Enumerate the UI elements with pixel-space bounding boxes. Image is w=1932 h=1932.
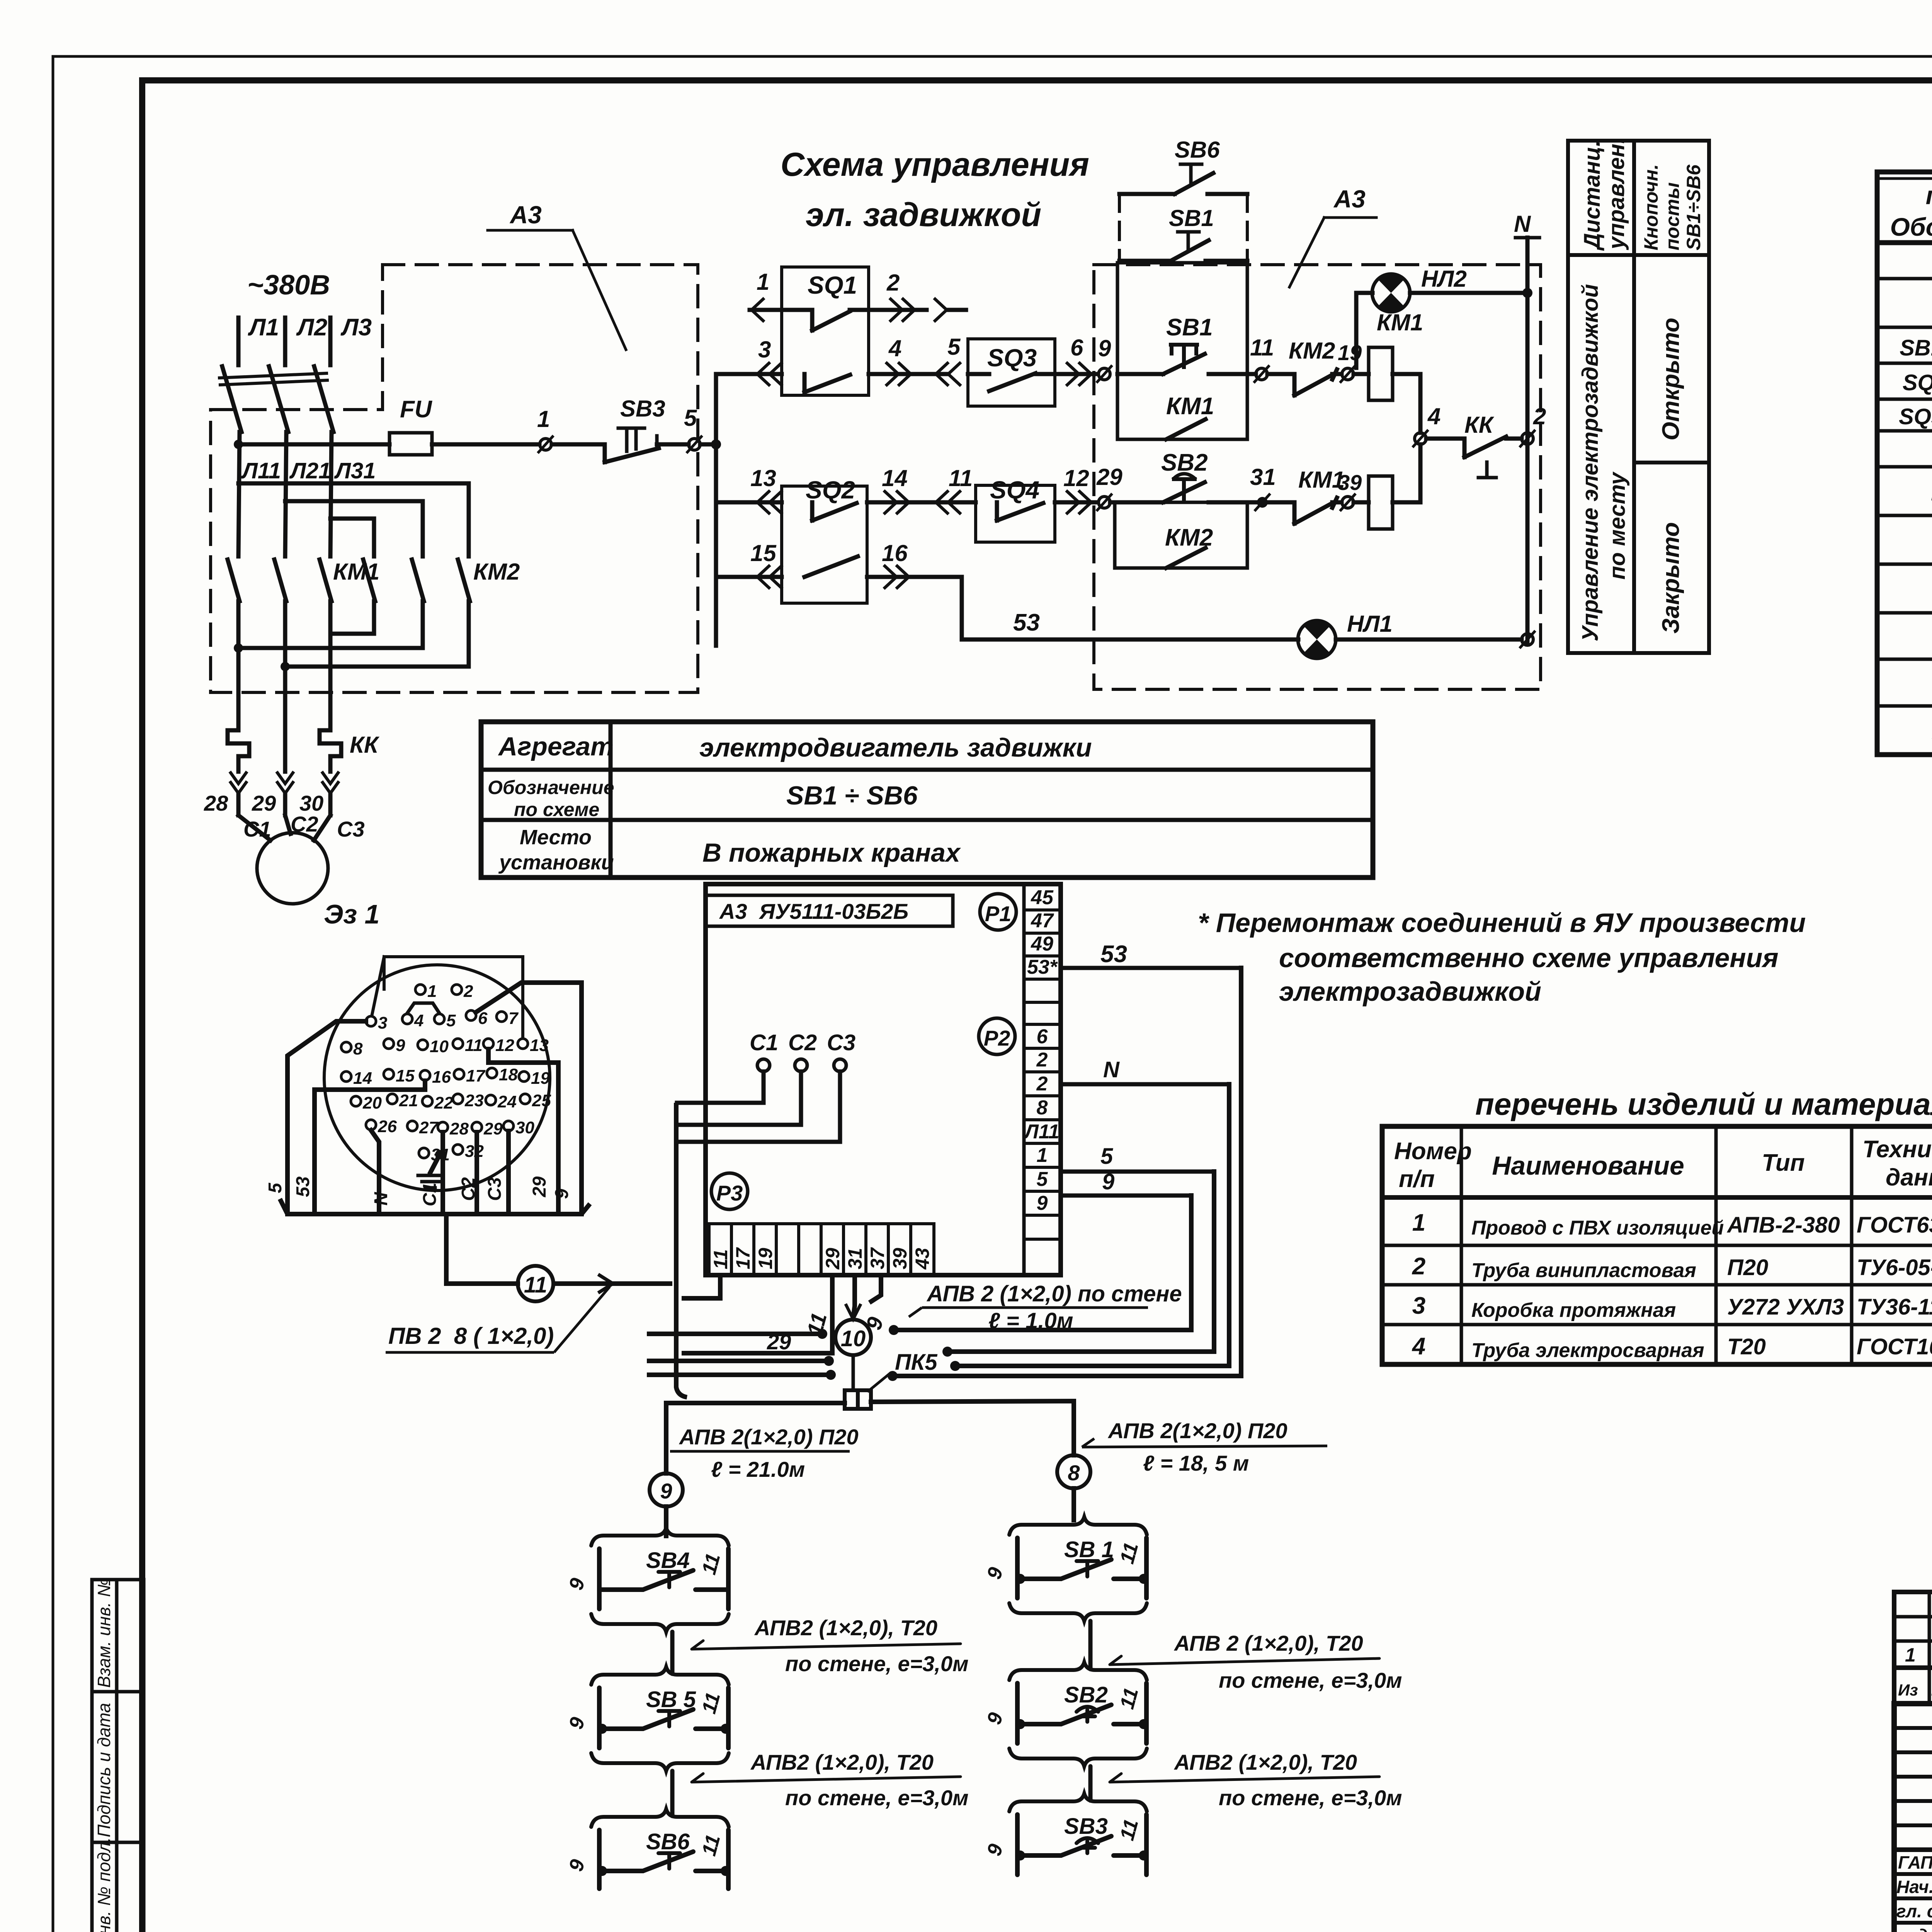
button SB6 unit xyxy=(591,1809,729,1827)
wire P3 hook xyxy=(871,1275,881,1301)
aggregate table xyxy=(481,722,1373,878)
terminal C1 xyxy=(757,1059,770,1071)
cable label APV P20 21m xyxy=(679,1425,859,1481)
svg-text:Подпись и дата: Подпись и дата xyxy=(94,1703,114,1837)
svg-text:14: 14 xyxy=(353,1069,372,1088)
label L31 xyxy=(334,458,376,483)
svg-text:Кнопочн.: Кнопочн. xyxy=(1640,164,1662,250)
svg-text:ℓ = 18, 5 м: ℓ = 18, 5 м xyxy=(1143,1451,1249,1475)
svg-text:31: 31 xyxy=(1250,464,1276,490)
svg-text:13: 13 xyxy=(750,465,776,491)
svg-text:SB6: SB6 xyxy=(646,1829,690,1854)
svg-text:11: 11 xyxy=(1250,335,1274,361)
wire phase1 xyxy=(238,432,240,556)
contact KM2 NC row1 xyxy=(1289,338,1335,364)
cable label APV wall 1.0 xyxy=(926,1281,1182,1333)
cable label T20 wall 3m (right2) xyxy=(1173,1750,1402,1810)
terminal 1 xyxy=(540,439,551,450)
svg-text:вед.инж: вед.инж xyxy=(1896,1925,1932,1932)
svg-text:22: 22 xyxy=(434,1094,453,1112)
dashed box A3 control xyxy=(1094,265,1541,689)
terminal C3 xyxy=(834,1059,846,1071)
svg-text:SB 1: SB 1 xyxy=(1064,1537,1114,1562)
svg-text:6: 6 xyxy=(1037,1026,1048,1048)
contact KM1 aux xyxy=(1166,393,1214,420)
svg-text:39: 39 xyxy=(889,1248,911,1269)
svg-text:37: 37 xyxy=(867,1247,888,1269)
svg-text:13: 13 xyxy=(530,1036,549,1055)
svg-text:19: 19 xyxy=(531,1069,550,1088)
left fan line3 xyxy=(649,1372,831,1377)
svg-text:2: 2 xyxy=(1036,1073,1048,1095)
svg-text:30: 30 xyxy=(515,1118,534,1137)
coil KM2 xyxy=(1369,476,1393,529)
terminal 29 xyxy=(1099,497,1110,508)
svg-text:1: 1 xyxy=(757,269,769,295)
svg-text:АПВ 2(1×2,0) П20: АПВ 2(1×2,0) П20 xyxy=(1107,1418,1287,1443)
svg-text:C1: C1 xyxy=(420,1183,440,1206)
svg-text:Провод с ПВХ изоляцией: Провод с ПВХ изоляцией xyxy=(1471,1217,1724,1239)
wire N out xyxy=(1061,1082,1229,1087)
svg-text:17: 17 xyxy=(466,1066,486,1085)
svg-text:П20: П20 xyxy=(1727,1255,1768,1280)
svg-text:C3: C3 xyxy=(827,1030,855,1055)
svg-text:10: 10 xyxy=(430,1037,449,1056)
wire 5 out xyxy=(1061,1170,1214,1174)
wire phase1 stub xyxy=(236,318,241,365)
node 4 xyxy=(1415,433,1426,444)
switch box SQ1 xyxy=(782,267,869,395)
contact SQ1 upper row 1-2 xyxy=(750,308,812,312)
P3 strip xyxy=(709,1224,934,1275)
svg-text:2: 2 xyxy=(1036,1049,1048,1071)
svg-text:Из: Из xyxy=(1898,1681,1918,1699)
svg-text:Л11: Л11 xyxy=(1023,1121,1060,1143)
button SB2 NC xyxy=(1161,449,1208,476)
wire 9 out xyxy=(1061,1194,1191,1198)
fuse FU xyxy=(389,433,432,455)
svg-text:C2: C2 xyxy=(458,1177,479,1201)
svg-text:КМ2: КМ2 xyxy=(473,559,520,585)
svg-text:15: 15 xyxy=(396,1066,415,1085)
svg-text:FU: FU xyxy=(400,396,433,423)
terminal 5 xyxy=(689,439,700,450)
svg-text:1: 1 xyxy=(1037,1144,1048,1167)
svg-text:9: 9 xyxy=(1102,1169,1114,1194)
svg-text:16: 16 xyxy=(882,540,908,566)
svg-text:А3 ЯУ5111-03Б2Б: А3 ЯУ5111-03Б2Б xyxy=(719,899,908,923)
svg-text:5: 5 xyxy=(446,1011,456,1030)
breaker QF crossbar xyxy=(219,373,327,378)
svg-text:4: 4 xyxy=(1412,1333,1425,1360)
wire row1 left xyxy=(716,372,782,376)
svg-text:21: 21 xyxy=(399,1091,418,1110)
coil KM1 xyxy=(1369,347,1393,400)
arrow 28 xyxy=(231,773,246,793)
svg-text:11: 11 xyxy=(524,1272,547,1298)
phase L2 label xyxy=(296,314,327,341)
svg-text:ПК5: ПК5 xyxy=(895,1350,937,1375)
branch down xyxy=(446,1214,518,1284)
cable label T20 wall 3m (left2) xyxy=(750,1750,969,1810)
connector P1 xyxy=(980,894,1016,930)
node dot L11 xyxy=(234,440,243,449)
wire C2 xyxy=(474,1132,479,1214)
phase L3 label xyxy=(340,314,372,341)
svg-text:ТУ36-1129-81: ТУ36-1129-81 xyxy=(1857,1294,1932,1320)
svg-text:КК: КК xyxy=(350,732,380,758)
svg-text:перечень изделий и материа: перечень изделий и материалов xyxy=(1475,1087,1932,1121)
lamp HL1 xyxy=(1298,621,1336,658)
svg-text:53: 53 xyxy=(293,1176,313,1197)
wire row2 left xyxy=(716,500,782,505)
svg-text:КМ1: КМ1 xyxy=(1377,310,1423,335)
svg-text:1: 1 xyxy=(1905,1644,1916,1666)
wire link xyxy=(1088,1766,1093,1801)
terminal HL1-N xyxy=(1522,634,1533,645)
svg-text:SB1÷SB6: SB1÷SB6 xyxy=(1900,335,1932,361)
svg-text:Тип: Тип xyxy=(1762,1150,1804,1176)
node dot xyxy=(281,662,290,671)
svg-text:SB1÷SB6: SB1÷SB6 xyxy=(1683,164,1704,250)
wire 5 from pin3 xyxy=(287,1021,366,1214)
contact KM1 NC row2 xyxy=(1298,467,1345,493)
svg-text:А3: А3 xyxy=(509,201,542,229)
wire C1 xyxy=(677,1071,764,1103)
node 8 circled xyxy=(1057,1455,1090,1488)
svg-text:АПВ 2(1×2,0) П20: АПВ 2(1×2,0) П20 xyxy=(679,1425,859,1449)
wire FU to 1 xyxy=(432,442,539,447)
svg-text:КМ1: КМ1 xyxy=(333,559,379,585)
arrow 29 xyxy=(277,773,293,793)
wires into motor xyxy=(236,793,241,815)
lamp HL2 branch xyxy=(1356,293,1372,368)
svg-text:А3: А3 xyxy=(1333,185,1366,213)
svg-text:9: 9 xyxy=(660,1479,672,1503)
svg-text:16: 16 xyxy=(432,1068,451,1087)
svg-text:Номер: Номер xyxy=(1394,1138,1472,1165)
svg-text:5: 5 xyxy=(684,405,697,431)
pin bridge 4-5 xyxy=(407,1003,439,1013)
left margin strip xyxy=(92,1580,144,1932)
button SB3 xyxy=(620,396,665,422)
svg-text:SB2: SB2 xyxy=(1064,1682,1108,1708)
svg-text:Место: Место xyxy=(520,826,592,849)
svg-text:Л11: Л11 xyxy=(241,458,281,483)
svg-text:С3: С3 xyxy=(337,817,365,841)
materials table xyxy=(1475,1087,1932,1121)
svg-text:Нач. ЭТО: Нач. ЭТО xyxy=(1896,1877,1932,1897)
svg-text:8: 8 xyxy=(1037,1097,1048,1119)
svg-text:HЛ2: HЛ2 xyxy=(1421,266,1467,292)
svg-text:п/п: п/п xyxy=(1399,1166,1435,1192)
svg-text:У272 УХЛ3: У272 УХЛ3 xyxy=(1727,1294,1844,1320)
svg-text:Инв. № подл.: Инв. № подл. xyxy=(94,1837,114,1932)
svg-text:* Перемонтаж соединений в Я: * Перемонтаж соединений в ЯУ произвести xyxy=(1198,908,1806,938)
svg-text:11: 11 xyxy=(949,465,973,491)
svg-text:Наименование: Наименование xyxy=(1492,1151,1684,1180)
plug body rect xyxy=(384,957,523,1039)
wire link xyxy=(670,1632,675,1674)
wire C3 xyxy=(506,1131,511,1214)
svg-text:SQ2: SQ2 xyxy=(806,476,855,504)
breaker QF blade1 xyxy=(222,366,241,432)
svg-text:Обознач.: Обознач. xyxy=(1890,213,1932,241)
node 11 circled xyxy=(518,1103,687,1397)
wire pole bottoms xyxy=(236,601,241,730)
svg-text:SB4: SB4 xyxy=(646,1548,690,1573)
svg-text:по схеме: по схеме xyxy=(514,799,599,820)
svg-text:ГОСТ10704-76: ГОСТ10704-76 xyxy=(1857,1334,1932,1359)
svg-text:электрозадвижкой: электрозадвижкой xyxy=(1279,976,1541,1007)
wire rejoin b xyxy=(238,646,423,650)
svg-text:29: 29 xyxy=(252,791,276,815)
cable label PV2 xyxy=(388,1323,554,1349)
junction box PK5 xyxy=(845,1390,871,1409)
svg-text:N: N xyxy=(1514,211,1531,237)
svg-text:25: 25 xyxy=(532,1091,551,1110)
svg-text:ГАП: ГАП xyxy=(1898,1852,1932,1872)
side table box xyxy=(1568,141,1709,653)
svg-text:23: 23 xyxy=(464,1091,484,1110)
svg-text:5: 5 xyxy=(947,334,961,360)
node 380V label xyxy=(247,270,330,301)
svg-text:установки: установки xyxy=(498,851,614,874)
wire row2 into SB2 xyxy=(1110,500,1163,505)
wire 53 runs xyxy=(962,577,1298,639)
svg-text:соответственно схеме управле: соответственно схеме управления xyxy=(1279,943,1779,973)
node dot xyxy=(234,643,243,653)
thermal KK heater3 xyxy=(320,730,341,772)
terminal 19 xyxy=(1342,368,1354,380)
svg-text:45: 45 xyxy=(1031,886,1054,909)
svg-text:53*: 53* xyxy=(1027,956,1058,978)
svg-text:2: 2 xyxy=(886,270,900,296)
svg-text:управлен.: управлен. xyxy=(1604,138,1629,250)
title scheme xyxy=(781,146,1089,233)
svg-text:31: 31 xyxy=(844,1248,866,1269)
svg-text:Управление электрозадвижкой: Управление электрозадвижкой xyxy=(1578,284,1603,641)
node 9 circled xyxy=(650,1473,683,1507)
svg-text:ГОСТ6323-79*: ГОСТ6323-79* xyxy=(1857,1213,1932,1238)
wire C3 xyxy=(677,1071,840,1142)
svg-text:Взам. инв. №: Взам. инв. № xyxy=(94,1578,114,1688)
N bus xyxy=(1514,211,1531,237)
header bar xyxy=(706,895,953,926)
svg-text:8: 8 xyxy=(1068,1461,1080,1485)
svg-text:12: 12 xyxy=(495,1036,514,1055)
svg-text:Л1: Л1 xyxy=(248,314,279,341)
contact KM2 aux xyxy=(1165,524,1213,551)
wire 5 descent xyxy=(947,1172,1214,1352)
motor Ed1 xyxy=(257,833,328,904)
svg-text:Л21: Л21 xyxy=(289,458,331,483)
svg-text:Закрыто: Закрыто xyxy=(1658,522,1684,634)
svg-text:53: 53 xyxy=(1100,941,1127,968)
connector circle xyxy=(324,965,550,1190)
svg-text:SQ₁, SQ₂: SQ₁, SQ₂ xyxy=(1903,370,1932,395)
revision table xyxy=(1894,1592,1932,1704)
svg-text:3: 3 xyxy=(1412,1293,1425,1319)
motor plug connector xyxy=(324,957,550,1190)
svg-text:гл. спец.: гл. спец. xyxy=(1896,1901,1932,1921)
svg-text:P1: P1 xyxy=(985,901,1012,926)
svg-text:SB 5: SB 5 xyxy=(646,1687,696,1712)
terminal 39 xyxy=(1342,497,1354,508)
wire N descent xyxy=(955,1084,1229,1366)
svg-text:ТУ6-05-1573-77: ТУ6-05-1573-77 xyxy=(1857,1255,1932,1280)
wire 53 out xyxy=(1061,966,1241,970)
contactor KM2 pole3 xyxy=(458,560,470,601)
svg-text:N: N xyxy=(1103,1057,1120,1082)
terminal 11 xyxy=(1256,368,1267,380)
svg-text:АПВ2 (1×2,0), Т20: АПВ2 (1×2,0), Т20 xyxy=(754,1616,937,1640)
title block xyxy=(1894,1704,1932,1932)
svg-text:Труба электросварная: Труба электросварная xyxy=(1471,1339,1704,1362)
svg-text:29: 29 xyxy=(767,1330,791,1354)
terminal C2 xyxy=(795,1059,807,1071)
svg-text:SB3: SB3 xyxy=(1064,1814,1108,1839)
wire 53 descent xyxy=(893,968,1241,1376)
svg-text:по месту: по месту xyxy=(1605,471,1630,580)
svg-text:КК: КК xyxy=(1464,412,1495,438)
svg-text:47: 47 xyxy=(1031,910,1054,932)
svg-text:12: 12 xyxy=(1063,465,1089,491)
terminal strip column xyxy=(1022,884,1026,1275)
dashed box remote buttons xyxy=(1119,194,1247,261)
svg-text:10: 10 xyxy=(841,1326,866,1351)
terminal 9 xyxy=(1099,368,1110,380)
arrow 30 xyxy=(323,773,338,793)
svg-text:Дистанц.: Дистанц. xyxy=(1580,140,1605,251)
terminal 2 xyxy=(1522,433,1533,444)
wire link xyxy=(670,1771,675,1816)
svg-text:Коробка протяжная: Коробка протяжная xyxy=(1471,1299,1676,1321)
lamp HL2 xyxy=(1372,274,1410,312)
switch box SQ3 xyxy=(968,339,1055,406)
svg-text:20: 20 xyxy=(362,1094,382,1112)
thermal contact KK xyxy=(1464,412,1495,438)
button SB3 unit xyxy=(1009,1794,1147,1811)
cable label T20 wall 3m (right1) xyxy=(1173,1631,1402,1692)
phase L1 label xyxy=(248,314,279,341)
cable label T20 wall 3m (left1) xyxy=(754,1616,969,1676)
wire from P3-11 xyxy=(684,1275,720,1298)
wire C2 xyxy=(677,1071,801,1125)
svg-text:посты: посты xyxy=(1662,182,1683,250)
svg-text:ℓ = 1.0м: ℓ = 1.0м xyxy=(988,1308,1073,1333)
svg-text:1: 1 xyxy=(537,406,550,432)
arrow << xyxy=(757,363,781,385)
svg-text:ПВ 2 8 ( 1×2,0): ПВ 2 8 ( 1×2,0) xyxy=(388,1323,554,1349)
svg-text:4: 4 xyxy=(888,335,901,361)
node 10 circled xyxy=(835,1320,871,1390)
svg-text:SQ3: SQ3 xyxy=(987,344,1037,372)
wire SB3 to 5 xyxy=(657,442,689,447)
svg-text:C1: C1 xyxy=(750,1030,778,1055)
svg-text:C3: C3 xyxy=(485,1177,505,1201)
svg-text:4: 4 xyxy=(414,1011,423,1030)
wire crossover inner xyxy=(330,519,374,556)
svg-text:SB1: SB1 xyxy=(1169,205,1214,231)
svg-text:Схема управления: Схема управления xyxy=(781,146,1089,183)
svg-text:5: 5 xyxy=(265,1182,286,1193)
wire 1 to SB3 xyxy=(552,442,605,447)
button SB2 unit xyxy=(1009,1662,1147,1680)
svg-text:SB6: SB6 xyxy=(1175,137,1220,163)
svg-text:Л31: Л31 xyxy=(334,458,376,483)
wire to FU xyxy=(238,442,389,447)
svg-text:2: 2 xyxy=(1412,1253,1425,1280)
svg-text:поз.: поз. xyxy=(1926,181,1932,209)
svg-text:15: 15 xyxy=(750,540,777,566)
wire link xyxy=(1088,1621,1093,1669)
svg-text:29: 29 xyxy=(822,1248,844,1270)
breaker QF blade3 xyxy=(314,366,333,432)
contact SQ1 lower row 3-4 xyxy=(804,374,850,392)
wire phase2 stub xyxy=(283,318,287,365)
svg-text:11: 11 xyxy=(465,1036,483,1055)
dashed box A3 power xyxy=(211,265,698,692)
svg-text:В пожарных кранах: В пожарных кранах xyxy=(702,838,961,867)
svg-text:19: 19 xyxy=(755,1248,776,1269)
svg-text:1: 1 xyxy=(427,982,437,1001)
collector bus xyxy=(281,1201,588,1214)
svg-text:2: 2 xyxy=(1533,403,1546,429)
svg-text:9: 9 xyxy=(552,1189,572,1199)
svg-text:4: 4 xyxy=(1427,403,1440,429)
svg-text:P3: P3 xyxy=(716,1181,743,1205)
svg-text:Агрегат: Агрегат xyxy=(498,732,614,761)
svg-text:ℓ = 21.0м: ℓ = 21.0м xyxy=(711,1457,805,1481)
svg-text:27: 27 xyxy=(419,1118,439,1137)
svg-text:АПВ-2-380: АПВ-2-380 xyxy=(1726,1213,1840,1238)
connector P3 xyxy=(711,1173,748,1209)
svg-text:Л2: Л2 xyxy=(296,314,327,341)
svg-text:P2: P2 xyxy=(984,1026,1010,1050)
svg-text:по стене, е=3,0м: по стене, е=3,0м xyxy=(785,1651,969,1676)
ground xyxy=(418,1175,443,1188)
svg-text:С1: С1 xyxy=(243,817,271,841)
contactor KM2 pole1 xyxy=(363,560,375,601)
svg-text:29: 29 xyxy=(529,1176,550,1197)
svg-text:SB1 ÷ SB6: SB1 ÷ SB6 xyxy=(786,781,918,810)
main run to chains xyxy=(666,1401,1074,1536)
svg-text:SQз, SQ4: SQз, SQ4 xyxy=(1899,404,1932,429)
svg-text:Открыто: Открыто xyxy=(1658,318,1684,440)
svg-text:8: 8 xyxy=(353,1039,363,1058)
station box SB2 xyxy=(1115,502,1247,568)
button SB1 unit xyxy=(1009,1517,1147,1535)
svg-text:3: 3 xyxy=(758,337,771,362)
node dot bus xyxy=(711,439,721,449)
svg-text:Технические: Технические xyxy=(1862,1136,1932,1163)
svg-text:49: 49 xyxy=(1031,933,1053,955)
wire phase3 stub xyxy=(328,318,333,365)
button SB6 xyxy=(1175,137,1220,163)
bus vertical xyxy=(714,374,718,646)
svg-text:АПВ2 (1×2,0), Т20: АПВ2 (1×2,0), Т20 xyxy=(1173,1750,1357,1774)
breaker QF blade2 xyxy=(269,366,288,432)
wire to 11 xyxy=(1247,372,1256,376)
svg-text:1: 1 xyxy=(1412,1209,1425,1236)
wire row3 15-16 xyxy=(716,575,782,579)
wire coil2 to node4 xyxy=(1393,444,1420,502)
wire C1 xyxy=(440,1132,445,1214)
svg-text:АПВ 2 (1×2,0), Т20: АПВ 2 (1×2,0), Т20 xyxy=(1173,1631,1363,1655)
svg-text:АПВ 2 (1×2,0) по стене: АПВ 2 (1×2,0) по стене xyxy=(926,1281,1182,1306)
wire crossover outer xyxy=(238,483,469,556)
